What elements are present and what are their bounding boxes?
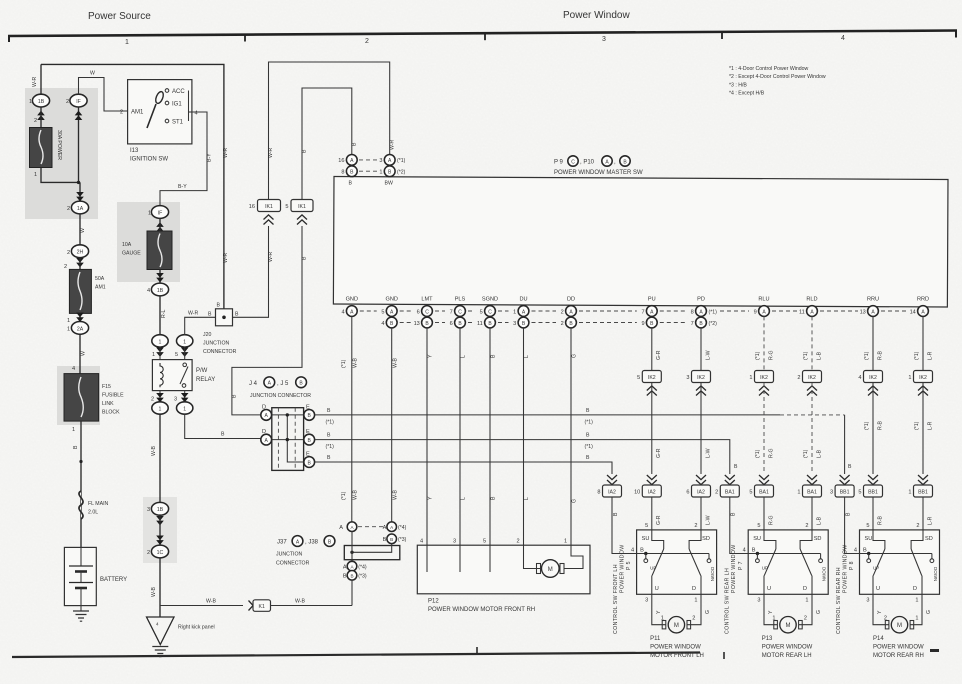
svg-text:1: 1 [148, 211, 151, 217]
svg-text:4: 4 [743, 548, 746, 554]
connector 1 IK2 [914, 371, 933, 383]
svg-text:IK1: IK1 [265, 204, 273, 210]
wire B bus 2 to 2 BA1 [315, 440, 730, 474]
wire fuse to 2A [79, 313, 81, 321]
wire L-R from IK2 down [922, 383, 924, 474]
svg-text:50A: 50A [95, 276, 105, 282]
svg-text:3: 3 [602, 36, 606, 43]
svg-text:B: B [491, 496, 497, 500]
svg-text:ST1: ST1 [172, 120, 184, 126]
svg-text:(*1): (*1) [326, 444, 335, 450]
wire L-R from master sw to IK2 [922, 316, 924, 370]
connector 1B (gauge bottom) [151, 283, 168, 296]
svg-text:5: 5 [858, 490, 861, 496]
svg-text:2: 2 [797, 375, 800, 381]
wire L-R to switch [922, 497, 924, 530]
relay coil [160, 363, 163, 387]
svg-text:1: 1 [159, 406, 162, 412]
svg-text:L-R: L-R [927, 351, 933, 360]
terminal 8(B) [346, 166, 357, 177]
svg-text:(*3): (*3) [398, 537, 407, 543]
wire G-R from master sw to IK2 [651, 328, 653, 371]
svg-text:W-R: W-R [390, 139, 396, 150]
contact UP [756, 554, 758, 559]
connector 2H [71, 245, 88, 258]
svg-text:GND: GND [346, 297, 358, 303]
svg-text:(*1): (*1) [914, 421, 920, 430]
shading behind 30A POWER fuse area [25, 88, 98, 219]
svg-text:POWER WINDOW MOTOR FRONT RH: POWER WINDOW MOTOR FRONT RH [428, 607, 535, 613]
wire pin1 to motor [564, 545, 583, 568]
svg-text:MOTOR REAR LH: MOTOR REAR LH [762, 653, 812, 659]
svg-text:2: 2 [694, 523, 697, 529]
arrow into 1B [156, 273, 164, 282]
wire SGND B down to P12 pin5 [489, 328, 491, 545]
svg-text:POWER WINDOW: POWER WINDOW [650, 645, 701, 651]
connector 5 BB1 [868, 475, 878, 485]
svg-text:R-B: R-B [877, 351, 883, 360]
svg-text:L: L [524, 497, 530, 500]
wire B-Y from IG1 to gauge fuse [160, 112, 207, 206]
svg-text:K1: K1 [259, 604, 265, 610]
svg-text:11: 11 [799, 309, 805, 315]
wire L-W to switch [700, 497, 702, 530]
svg-text:G-R: G-R [656, 448, 662, 458]
svg-text:*3 : H/B: *3 : H/B [729, 82, 747, 88]
wire 1B to fuse [40, 107, 42, 128]
svg-text:2: 2 [147, 550, 150, 556]
arrow into relay pin1 [156, 348, 164, 357]
wire 1B to relay pin1 [159, 296, 161, 335]
svg-text:Power Window: Power Window [563, 10, 630, 21]
svg-text:L-W: L-W [705, 515, 711, 525]
svg-text:L: L [524, 355, 530, 358]
wire DU L down to P12 pin2 [523, 328, 525, 545]
svg-text:L-B: L-B [816, 516, 822, 525]
switch box [637, 530, 717, 594]
svg-text:IF: IF [76, 99, 81, 105]
svg-text:AM1: AM1 [95, 285, 106, 291]
svg-text:W-R: W-R [223, 252, 229, 263]
wire L-W from master sw to IK2 [700, 328, 702, 371]
svg-text:1: 1 [513, 309, 516, 315]
arrow into 1B [37, 111, 45, 120]
shading behind 1B/1C connectors [143, 497, 177, 563]
svg-text:W-R: W-R [268, 251, 274, 262]
chevrons below 16 IK1 [264, 215, 274, 225]
wire B from 8 IA2 to control sw front LH [612, 497, 637, 554]
svg-text:IA2: IA2 [697, 490, 705, 496]
svg-text:IF: IF [158, 210, 163, 216]
motor P14 [885, 621, 889, 629]
svg-text:5: 5 [285, 204, 288, 210]
switch arm UP [652, 549, 664, 576]
wire G-R from IK2 down [651, 383, 653, 474]
svg-text:3: 3 [147, 507, 150, 513]
svg-text:7: 7 [641, 309, 644, 315]
wire relay pin5 stub [184, 347, 186, 360]
svg-text:F15: F15 [102, 384, 111, 390]
svg-text:B: B [586, 433, 590, 439]
svg-text:6: 6 [450, 321, 453, 327]
svg-text:*2 : Except 4-Door Control Pow: *2 : Except 4-Door Control Power Window [729, 74, 826, 80]
svg-text:(*1): (*1) [709, 309, 718, 315]
ignition switch I13 [128, 80, 192, 144]
svg-text:2: 2 [34, 118, 37, 124]
svg-text:2: 2 [64, 264, 67, 270]
svg-text:RLU: RLU [758, 297, 769, 303]
wire F15 to battery [80, 421, 82, 547]
svg-text:R-B: R-B [877, 421, 883, 430]
connector IF (to ignition) [70, 94, 87, 107]
connector IF (gauge fuse top) [151, 206, 168, 219]
svg-text:1: 1 [152, 352, 155, 358]
wire 1B to 1C [159, 515, 161, 546]
relay switch arm [180, 367, 188, 385]
arrow below 1B [156, 516, 164, 525]
svg-text:UP: UP [873, 566, 879, 571]
svg-text:L-B: L-B [816, 449, 822, 458]
svg-text:CONNECTOR: CONNECTOR [203, 349, 237, 355]
svg-text:1: 1 [183, 339, 186, 345]
svg-text:B: B [327, 408, 331, 414]
wire J20 right up to 16 IK1 [233, 226, 269, 317]
svg-text:(*1): (*1) [803, 449, 809, 458]
svg-text:BB1: BB1 [868, 490, 878, 496]
svg-text:U: U [767, 586, 771, 592]
wire G to motor [910, 594, 922, 624]
wire J37 down to W-B ground line [351, 580, 353, 605]
svg-text:3: 3 [453, 539, 456, 545]
connector 5 BA1 [759, 475, 769, 485]
svg-text:3: 3 [757, 598, 760, 604]
svg-text:SGND: SGND [482, 297, 498, 303]
connector 1 IK2 [755, 371, 774, 383]
section tick 2|3 [484, 33, 486, 40]
svg-text:POWER WINDOW: POWER WINDOW [762, 645, 813, 651]
svg-text:B: B [350, 574, 353, 579]
svg-text:6: 6 [686, 490, 689, 496]
svg-text:LMT: LMT [421, 297, 433, 303]
svg-text:B: B [586, 408, 590, 414]
svg-text:3: 3 [174, 397, 177, 403]
svg-text:POWER WINDOW: POWER WINDOW [731, 544, 737, 593]
svg-text:B-Y: B-Y [178, 184, 187, 190]
svg-text:BA1: BA1 [807, 490, 817, 496]
fusible link FL MAIN 2.0L [79, 491, 83, 519]
svg-text:D: D [803, 586, 807, 592]
svg-text:*1 : 4-Door Control Power Wind: *1 : 4-Door Control Power Window [729, 66, 809, 72]
svg-text:R-G: R-G [768, 515, 774, 525]
svg-text:GND: GND [385, 297, 397, 303]
wire B from 3 BB1 to control sw rear RH [845, 497, 860, 554]
svg-text:POWER WINDOW: POWER WINDOW [843, 544, 849, 593]
svg-text:2: 2 [916, 523, 919, 529]
switch box [860, 530, 940, 594]
wire L-W from IK2 down [700, 383, 702, 474]
svg-text:, J 5: , J 5 [277, 381, 289, 387]
svg-text:2: 2 [692, 616, 695, 622]
wire B from 2 BA1 to control sw rear LH [730, 497, 748, 554]
svg-text:Power Source: Power Source [88, 11, 151, 22]
switch arm UP [873, 549, 885, 576]
svg-text:P12: P12 [428, 599, 439, 605]
fuse 10A GAUGE [147, 231, 172, 270]
svg-text:11: 11 [477, 321, 483, 327]
svg-text:(*1): (*1) [864, 421, 870, 430]
svg-text:5: 5 [749, 490, 752, 496]
svg-text:CONNECTOR: CONNECTOR [276, 561, 310, 567]
svg-text:1: 1 [29, 99, 32, 105]
arrow into pin3 oval [181, 393, 189, 402]
svg-text:G-R: G-R [656, 350, 662, 360]
top section rule [8, 31, 957, 37]
svg-text:3: 3 [379, 158, 382, 164]
contact UP [645, 554, 647, 559]
fusible link block F15 [64, 374, 99, 422]
svg-text:B: B [848, 464, 852, 470]
switch box [748, 530, 828, 594]
svg-text:6: 6 [417, 309, 420, 315]
wire W from IF to ignition switch [79, 78, 128, 112]
svg-text:FL MAIN: FL MAIN [88, 501, 109, 507]
svg-text:9: 9 [754, 309, 757, 315]
svg-text:U: U [876, 586, 880, 592]
wire L-B from master sw to IK2 [811, 316, 813, 370]
connector 1A [71, 201, 88, 214]
wire pin2 to motor [524, 545, 541, 568]
svg-text:IK2: IK2 [808, 375, 816, 381]
svg-text:B: B [221, 432, 225, 438]
svg-text:30A POWER: 30A POWER [56, 130, 62, 160]
dashed link A row [359, 159, 379, 161]
wire LMT Y down to P12 pin4 [426, 328, 428, 545]
wire 5 IK1 up-over to master sw 16(A) [302, 88, 352, 200]
svg-text:L-W: L-W [705, 448, 711, 458]
svg-text:BB1: BB1 [918, 490, 928, 496]
svg-text:10A: 10A [122, 242, 132, 248]
svg-text:C: C [571, 159, 575, 165]
svg-text:5: 5 [866, 523, 869, 529]
connector 5 IK2 [642, 371, 661, 383]
connector 8 IA2 [607, 475, 617, 485]
svg-text:Y: Y [768, 610, 774, 614]
svg-text:1: 1 [915, 616, 918, 622]
svg-text:P/W: P/W [196, 368, 208, 374]
svg-text:IK2: IK2 [869, 375, 877, 381]
svg-text:B: B [731, 512, 737, 516]
svg-text:G: G [705, 610, 711, 614]
arrow into 1C [156, 536, 164, 545]
svg-text:DD: DD [567, 297, 575, 303]
svg-text:MOTOR REAR RH: MOTOR REAR RH [873, 653, 924, 659]
switch arm DOWN [689, 549, 701, 576]
wire R-B from IK2 down [872, 383, 874, 474]
svg-text:3: 3 [830, 490, 833, 496]
svg-text:I13: I13 [130, 148, 139, 154]
terminal 1(B)(*2) [384, 166, 395, 177]
svg-text:B: B [302, 149, 308, 153]
svg-text:(*2): (*2) [709, 321, 718, 327]
junction connector J4/J5 body [272, 408, 304, 471]
internal bus of J4/J5 [266, 414, 309, 416]
svg-text:(*4): (*4) [398, 525, 407, 531]
chevrons below 1 IK2 [918, 386, 928, 396]
junction dot on battery wire [79, 460, 82, 463]
connector 2 BA1 [725, 475, 735, 485]
svg-text:B: B [208, 312, 212, 318]
svg-text:5: 5 [483, 539, 486, 545]
wire fuse to 1B [159, 270, 161, 284]
svg-text:B: B [327, 433, 331, 439]
power window master switch box [333, 177, 948, 307]
svg-text:13: 13 [414, 321, 420, 327]
svg-text:B: B [232, 394, 238, 398]
svg-text:3: 3 [513, 321, 516, 327]
svg-text:1: 1 [67, 327, 70, 333]
svg-text:GAUGE: GAUGE [122, 251, 141, 257]
svg-text:(*1): (*1) [326, 420, 335, 426]
svg-text:G: G [572, 354, 578, 358]
motor P13 [774, 621, 778, 629]
bottom rule [12, 653, 700, 658]
wire K1 to J37 drop [271, 605, 353, 607]
wire IF to 10A fuse [159, 219, 161, 232]
contact DOWN [708, 554, 710, 559]
wire relay pin3 stub [184, 391, 186, 402]
svg-text:L: L [461, 497, 467, 500]
svg-text:1: 1 [379, 170, 382, 176]
svg-text:2: 2 [561, 309, 564, 315]
svg-text:(*2): (*2) [397, 170, 406, 176]
svg-text:B: B [863, 548, 867, 554]
relay contact top [183, 363, 187, 367]
section tick 1|2 [244, 34, 246, 41]
contact UP [868, 554, 870, 559]
terminal 16(A) [346, 155, 357, 166]
bottom rule right mark [930, 649, 939, 652]
svg-text:, J38: , J38 [305, 540, 319, 546]
svg-text:2: 2 [561, 321, 564, 327]
svg-text:B: B [491, 354, 497, 358]
svg-text:PLS: PLS [455, 297, 466, 303]
svg-text:4: 4 [381, 321, 384, 327]
connector 2 IK2 [803, 371, 822, 383]
connector 1 BA1 [807, 475, 817, 485]
wire GND2 W-B down to J37 [391, 328, 393, 522]
svg-text:IA2: IA2 [648, 490, 656, 496]
svg-text:W-R: W-R [188, 311, 199, 317]
svg-text:(*1): (*1) [341, 491, 347, 500]
svg-text:1: 1 [915, 598, 918, 604]
svg-text:Y: Y [428, 354, 434, 358]
svg-text:IK2: IK2 [697, 375, 705, 381]
svg-text:CONTROL SW REAR LH: CONTROL SW REAR LH [725, 568, 731, 634]
svg-text:U: U [655, 586, 659, 592]
wire Y to motor [652, 594, 666, 624]
svg-text:3: 3 [645, 598, 648, 604]
svg-text:BW: BW [385, 181, 393, 187]
section tick left end [8, 35, 10, 42]
svg-text:1: 1 [159, 339, 162, 345]
arrow into 1A [76, 192, 84, 201]
wire DD G down to P12 pin1 [570, 328, 572, 545]
svg-text:ACC: ACC [172, 89, 185, 95]
svg-text:2: 2 [66, 99, 69, 105]
svg-text:3: 3 [686, 375, 689, 381]
svg-text:L-B: L-B [816, 351, 822, 360]
svg-text:B: B [302, 256, 308, 260]
relay pin3 connector oval [177, 402, 193, 414]
svg-text:2: 2 [715, 490, 718, 496]
svg-text:2: 2 [804, 616, 807, 622]
chevrons below 5 IK1 [297, 215, 307, 225]
svg-text:W: W [80, 228, 86, 233]
ground triangle Right kick panel [147, 617, 175, 645]
arrow into pin2 oval [156, 393, 164, 402]
wire L-B to switch [811, 497, 813, 530]
svg-text:8: 8 [341, 170, 344, 176]
svg-text:W: W [90, 71, 95, 77]
connector K1 [253, 600, 271, 612]
svg-text:Y: Y [656, 610, 662, 614]
shading behind 10A GAUGE fuse [117, 202, 180, 282]
svg-text:C: C [425, 309, 429, 315]
svg-text:16: 16 [249, 204, 255, 210]
svg-text:B: B [586, 455, 590, 461]
svg-text:P11: P11 [650, 636, 661, 642]
svg-text:(*1): (*1) [755, 449, 761, 458]
svg-text:16: 16 [338, 158, 344, 164]
svg-text:POWER WINDOW: POWER WINDOW [873, 645, 924, 651]
svg-text:2: 2 [67, 206, 70, 212]
svg-text:UP: UP [762, 566, 768, 571]
svg-text:RLD: RLD [806, 297, 817, 303]
svg-text:R-L: R-L [161, 310, 167, 318]
svg-text:IA2: IA2 [608, 490, 616, 496]
svg-text:1B: 1B [38, 99, 45, 105]
svg-text:RELAY: RELAY [196, 377, 215, 383]
svg-text:C: C [488, 309, 492, 315]
arrow below 2H [76, 258, 84, 267]
svg-text:DOWN: DOWN [822, 567, 827, 581]
svg-text:R-B: R-B [877, 516, 883, 525]
contact ST1 [165, 119, 169, 123]
svg-text:DU: DU [519, 297, 527, 303]
svg-text:PD: PD [697, 297, 705, 303]
svg-text:2.0L: 2.0L [88, 510, 98, 516]
svg-text:4: 4 [631, 548, 634, 554]
svg-text:B: B [217, 303, 221, 309]
wire 16 IK1 up-over to master sw 3(A) [269, 62, 390, 200]
svg-text:9: 9 [641, 321, 644, 327]
svg-text:5: 5 [381, 309, 384, 315]
svg-text:POWER WINDOW: POWER WINDOW [620, 544, 626, 593]
svg-text:SU: SU [642, 536, 650, 542]
svg-text:P14: P14 [873, 636, 884, 642]
svg-text:1: 1 [749, 375, 752, 381]
svg-text:CONTROL SW FRONT LH: CONTROL SW FRONT LH [613, 564, 619, 634]
svg-text:W-B: W-B [151, 445, 157, 456]
switch arm UP [764, 549, 776, 576]
dashed link B row [359, 170, 379, 172]
svg-text:1: 1 [34, 172, 37, 178]
svg-text:Right kick panel: Right kick panel [178, 625, 215, 631]
svg-text:JUNCTION CONNECTOR: JUNCTION CONNECTOR [250, 393, 311, 399]
svg-text:CONTROL SW REAR RH: CONTROL SW REAR RH [836, 567, 842, 634]
svg-text:1C: 1C [157, 550, 164, 556]
motor box P12 [417, 545, 590, 594]
